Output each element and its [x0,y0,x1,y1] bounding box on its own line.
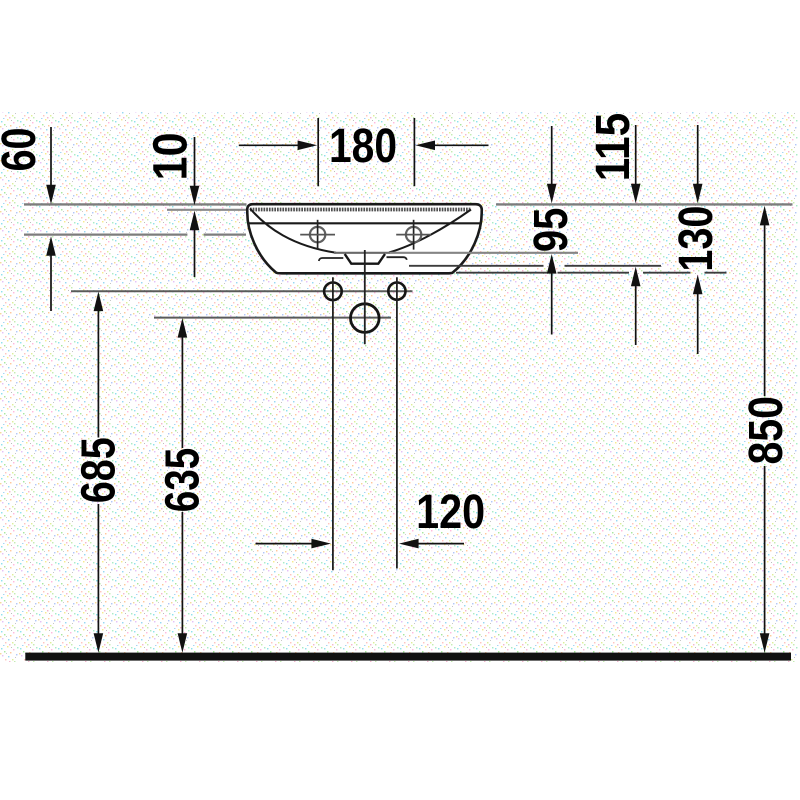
right tap hole vertical centerline [413,220,415,250]
overflow recess trapezoid [345,254,385,264]
recess right flange [387,257,407,260]
right fixing hole [388,283,405,300]
dim 180 right extension line [413,118,415,186]
svg-text:120: 120 [416,486,485,539]
dim 635 upper arrow and shaft [178,318,188,338]
right tap hole horizontal centerline [396,234,431,236]
right tap hole circle [406,227,421,242]
left tap hole vertical centerline [317,220,319,250]
basin outline [247,204,482,273]
115 reference line [409,265,661,267]
right fixing hole centerline (extends to 120 dim) [396,277,398,568]
wall reference line (rim level) left segment [24,203,247,205]
svg-text:180: 180 [329,120,397,173]
dim 130 lower arrow and shaft [693,275,703,295]
inner bowl curve left [250,209,336,253]
svg-text:850: 850 [740,396,793,465]
dim 850 lower shaft and arrow [764,466,766,634]
left fixing hole centerline (extends to 120 dim) [332,277,334,570]
dim 685 lower shaft and arrow [97,504,99,634]
floor bar [25,653,791,661]
drain reference line (635 level) [154,317,391,319]
dim 180 left arrow [239,144,299,146]
dashed tap deck line inside basin [250,208,471,212]
dim 60 upper shaft and arrow [50,127,52,186]
dim 120 left arrow [256,543,314,545]
dim 635 lower shaft and arrow [181,512,183,634]
dim 120 right arrow [399,539,419,549]
dim 95 lower arrow and shaft [547,254,557,274]
fixing holes reference line (685 level) [71,290,413,292]
inner bowl curve right [389,210,471,253]
dim 115 upper shaft and arrow [635,125,637,184]
svg-text:10: 10 [144,133,197,181]
dim 850 upper arrow and shaft [760,206,770,226]
left fixing hole [324,283,342,301]
95 reference line (overflow level) [390,252,578,254]
dim 180 left extension line [317,118,319,186]
tap hole centre reference line [24,234,246,236]
svg-text:60: 60 [0,128,46,172]
dim 60 lower arrow and shaft [46,236,56,256]
drain centerline [364,250,366,344]
dim 10 lower arrow and shaft [190,211,200,231]
dim 130 upper shaft and arrow [697,125,699,184]
dim 10 upper shaft and arrow [194,137,196,186]
svg-text:95: 95 [525,208,578,253]
130 reference line (basin bottom level) [456,272,727,274]
wall reference line (rim level) right segment [496,203,793,205]
svg-text:685: 685 [72,437,125,503]
drain circle [351,304,380,333]
left tap hole horizontal centerline [300,234,335,236]
left tap hole circle [310,227,325,242]
svg-text:130: 130 [670,206,723,272]
dim 685 upper arrow and shaft [94,292,104,312]
dim 115 lower arrow and shaft [631,267,641,287]
10mm reference line left of basin [167,209,246,211]
recess left flange [319,258,344,261]
inner rim front edge line [249,222,480,224]
overflow recess lip line [334,252,390,254]
dim 180 right arrow [415,141,435,151]
svg-text:115: 115 [587,113,640,182]
noise field over drawing area [0,112,798,662]
svg-text:635: 635 [157,448,210,513]
dim 95 upper shaft and arrow [551,126,553,184]
